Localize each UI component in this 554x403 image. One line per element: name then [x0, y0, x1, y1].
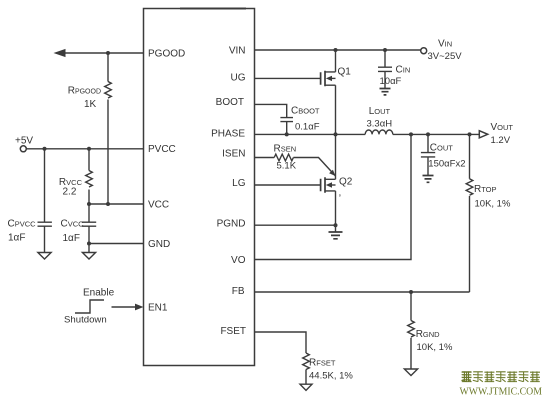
svg-text:VIN: VIN: [229, 46, 246, 57]
svg-text:PVCC: PVCC: [148, 144, 176, 155]
svg-text:BOOT: BOOT: [216, 97, 244, 108]
svg-text:VO: VO: [231, 255, 246, 266]
svg-text:+5V: +5V: [15, 136, 33, 147]
svg-text:RSEN: RSEN: [274, 144, 297, 155]
svg-text:1K: 1K: [84, 99, 97, 110]
svg-text:CBOOT: CBOOT: [291, 106, 320, 117]
svg-text:EN1: EN1: [148, 303, 168, 314]
svg-text:COUT: COUT: [430, 143, 453, 154]
svg-text:1αF: 1αF: [63, 233, 80, 244]
svg-text:RFSET: RFSET: [309, 358, 336, 369]
svg-text:,: ,: [339, 188, 342, 199]
svg-text:RPGOOD: RPGOOD: [68, 86, 101, 97]
svg-text:1.2V: 1.2V: [491, 135, 511, 146]
svg-text:5.1K: 5.1K: [277, 161, 297, 172]
svg-text:2.2: 2.2: [63, 187, 77, 198]
svg-text:1αF: 1αF: [8, 233, 25, 244]
svg-text:CPVCC: CPVCC: [8, 219, 37, 230]
svg-text:PGOOD: PGOOD: [148, 49, 185, 60]
svg-text:10K, 1%: 10K, 1%: [475, 199, 511, 210]
svg-text:10αF: 10αF: [380, 76, 402, 87]
svg-text:PGND: PGND: [217, 219, 246, 230]
svg-text:0.1αF: 0.1αF: [295, 122, 320, 133]
svg-text:Shutdown: Shutdown: [64, 315, 107, 326]
svg-text:ISEN: ISEN: [222, 149, 245, 160]
svg-text:LOUT: LOUT: [369, 106, 391, 117]
svg-text:PHASE: PHASE: [211, 128, 245, 139]
svg-text:RTOP: RTOP: [474, 184, 497, 195]
svg-text:3V~25V: 3V~25V: [428, 51, 463, 62]
svg-text:FSET: FSET: [220, 326, 246, 337]
svg-text:10K, 1%: 10K, 1%: [417, 342, 453, 353]
svg-text:Q1: Q1: [338, 67, 352, 78]
svg-text:LG: LG: [232, 178, 246, 189]
svg-text:VCC: VCC: [148, 200, 169, 211]
svg-text:UG: UG: [231, 73, 246, 84]
svg-text:CIN: CIN: [396, 65, 411, 76]
svg-text:44.5K, 1%: 44.5K, 1%: [309, 370, 353, 381]
svg-text:3.3αH: 3.3αH: [367, 119, 393, 130]
svg-text:WWW.JTMIC.COM: WWW.JTMIC.COM: [460, 386, 543, 398]
svg-text:RGND: RGND: [416, 329, 440, 340]
svg-text:Q2: Q2: [339, 177, 353, 188]
svg-text:CVCC: CVCC: [61, 219, 85, 230]
svg-text:VOUT: VOUT: [491, 122, 514, 133]
svg-text:GND: GND: [148, 239, 170, 250]
svg-text:FB: FB: [232, 286, 245, 297]
svg-text:150αFx2: 150αFx2: [428, 159, 465, 170]
svg-text:Enable: Enable: [83, 288, 115, 299]
svg-text:VIN: VIN: [438, 39, 452, 50]
